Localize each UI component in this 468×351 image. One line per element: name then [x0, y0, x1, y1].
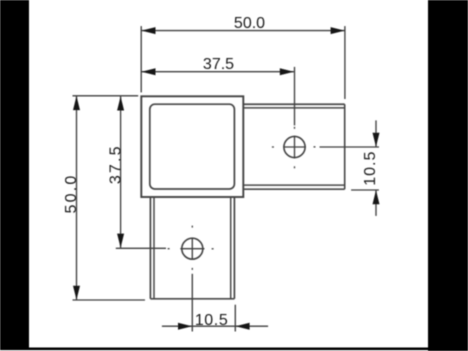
dimension 50.0 top: extension line right: [344, 26, 346, 99]
dimension 37.5 left: top arrowhead: [117, 96, 124, 110]
dimension 50.0 left: dimension line: [76, 96, 78, 300]
svg-text:50.0: 50.0: [63, 174, 80, 214]
dimension 37.5 left: extension line to hole center: [116, 247, 166, 249]
bottom arm hole centerline dots: [168, 226, 214, 270]
right arm bottom outer wall line: [243, 188, 344, 190]
right arm top outer wall line: [243, 103, 344, 105]
bottom arm right inner wall line: [230, 197, 232, 299]
dimension 10.5 right: dimension line upper tail: [375, 120, 377, 147]
body outer square: [141, 96, 243, 197]
dimension 37.5 left: bottom arrowhead: [117, 234, 124, 248]
bottom arm left outer wall line: [149, 197, 151, 299]
bottom arm hole crosshair: [180, 239, 204, 260]
dimension 50.0 left: extension line bottom: [73, 299, 146, 301]
dimension 50.0 left: top arrowhead: [73, 96, 80, 110]
dimension 10.5 right: lower arrowhead pointing up: [373, 190, 380, 204]
body inner rounded square (tube bore): [150, 104, 235, 189]
dimension 10.5 bottom: extension line from arm right edge: [234, 305, 236, 332]
right arm end edge: [344, 104, 346, 189]
bottom arm hole circle: [182, 238, 203, 259]
dimension 37.5 left: dimension line: [120, 96, 122, 248]
dimension 50.0 left: extension line top: [73, 95, 139, 97]
right arm top inner wall line: [243, 107, 344, 109]
svg-text:10.5: 10.5: [362, 151, 379, 186]
right arm hole crosshair: [283, 136, 306, 159]
dimension 37.5 top: left arrowhead: [141, 68, 155, 75]
black border bar right: [428, 0, 468, 351]
dimension 10.5 bottom: extension line from hole center: [191, 274, 193, 332]
svg-text:10.5: 10.5: [195, 312, 229, 329]
svg-text:37.5: 37.5: [203, 56, 234, 73]
bottom arm left inner wall line: [153, 197, 155, 299]
dimension 10.5 bottom: left arrowhead pointing right: [178, 323, 192, 330]
svg-text:50.0: 50.0: [234, 15, 265, 32]
svg-text:37.5: 37.5: [108, 144, 125, 184]
dimension 10.5 bottom: right arrowhead pointing left: [236, 323, 250, 330]
dimension 10.5 right: dimension line lower tail: [375, 190, 377, 216]
dimension 50.0 left: bottom arrowhead: [73, 286, 80, 300]
right arm hole centerline dots: [272, 127, 316, 169]
right arm hole circle: [284, 136, 305, 157]
dimension 50.0 top: extension line left: [140, 26, 142, 92]
dimension 50.0 top: right arrowhead: [331, 27, 345, 34]
dimension 50.0 top: left arrowhead: [141, 27, 155, 34]
dimension 10.5 right: extension line from arm bottom edge: [351, 189, 379, 191]
dimension 37.5 top: extension line down to hole center: [294, 67, 296, 126]
dimension 10.5 bottom: dimension line: [162, 325, 268, 327]
dimension 10.5 right: upper arrowhead pointing down: [373, 133, 380, 147]
dimension 50.0 top: dimension line: [141, 30, 345, 32]
black border bar left: [0, 0, 29, 349]
black border strip bottom: [0, 348, 468, 351]
dimension 10.5 right: extension line from hole center: [320, 146, 380, 148]
bottom arm end edge: [150, 298, 234, 300]
dimension 37.5 top: dimension line: [141, 71, 294, 73]
right arm bottom inner wall line: [243, 184, 344, 186]
bottom arm right outer wall line: [233, 197, 235, 299]
dimension 37.5 top: right arrowhead: [280, 68, 294, 75]
